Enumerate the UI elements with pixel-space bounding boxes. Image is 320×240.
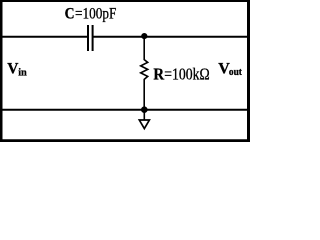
- svg-text:R: R: [153, 66, 164, 84]
- svg-text:=100pF: =100pF: [75, 6, 116, 23]
- svg-text:C: C: [65, 6, 75, 23]
- svg-text:=100kΩ: =100kΩ: [164, 64, 209, 83]
- svg-text:out: out: [229, 67, 242, 78]
- svg-text:in: in: [18, 68, 27, 79]
